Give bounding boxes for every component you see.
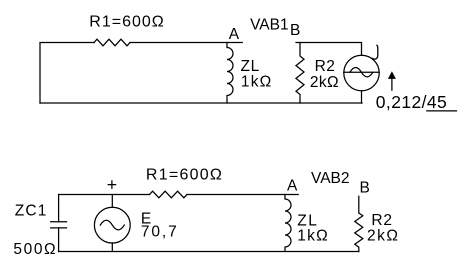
svg-text:B: B [360, 180, 370, 197]
svg-text:VAB2: VAB2 [311, 170, 350, 187]
svg-text:ZC1: ZC1 [15, 203, 48, 220]
svg-text:ZL: ZL [241, 58, 261, 75]
svg-text:2kΩ: 2kΩ [310, 74, 339, 91]
wire: node B to source [296, 43, 362, 56]
source E circle [94, 207, 130, 243]
wire: top circuit bottom [40, 102, 362, 104]
label J (source) [373, 45, 378, 59]
source E sine [100, 220, 124, 230]
svg-text:0,212/45: 0,212/45 [376, 92, 447, 112]
svg-text:2kΩ: 2kΩ [367, 228, 399, 245]
source sine wave [350, 68, 373, 77]
source center line [344, 71, 379, 73]
wire: R1 to node A stub (bottom) [187, 194, 298, 196]
source E bottom stub [111, 243, 113, 252]
svg-text:1kΩ: 1kΩ [241, 74, 273, 91]
svg-text:A: A [229, 26, 240, 43]
capacitor ZC1 bottom lead [58, 228, 60, 252]
capacitor ZC1 plates [51, 222, 67, 228]
svg-text:70,7: 70,7 [141, 224, 179, 241]
svg-text:R1=600Ω: R1=600Ω [89, 14, 164, 31]
resistor R1 (top circuit) [94, 39, 130, 46]
svg-text:B: B [290, 22, 300, 39]
svg-text:VAB1: VAB1 [250, 17, 289, 34]
inductor ZL (top circuit) [227, 43, 233, 104]
svg-text:1kΩ: 1kΩ [297, 228, 329, 245]
current source circle (top circuit) [344, 55, 379, 90]
capacitor ZC1 top lead [58, 195, 60, 222]
resistor R2 (top circuit) [296, 43, 304, 104]
svg-text:R2: R2 [371, 212, 392, 229]
wire: R1 to node A stub [130, 42, 242, 44]
svg-text:500Ω: 500Ω [13, 241, 57, 258]
svg-text:R2: R2 [315, 58, 336, 75]
arrow head [388, 71, 396, 79]
wire: top circuit left+top [40, 43, 94, 104]
svg-text:A: A [287, 178, 298, 195]
resistor R2 (bottom circuit) [355, 196, 363, 251]
wire: source bottom stub [361, 91, 363, 103]
plus sign [108, 181, 115, 188]
arrow shaft [391, 79, 393, 91]
underline of 45 [426, 110, 457, 112]
source E top stub [111, 195, 113, 208]
wire: bottom circuit bottom [59, 251, 359, 253]
wire: bottom circuit top-left [59, 194, 150, 196]
inductor ZL (bottom circuit) [285, 195, 291, 252]
svg-text:R1=600Ω: R1=600Ω [146, 166, 223, 183]
resistor R1 (bottom circuit) [150, 191, 187, 198]
